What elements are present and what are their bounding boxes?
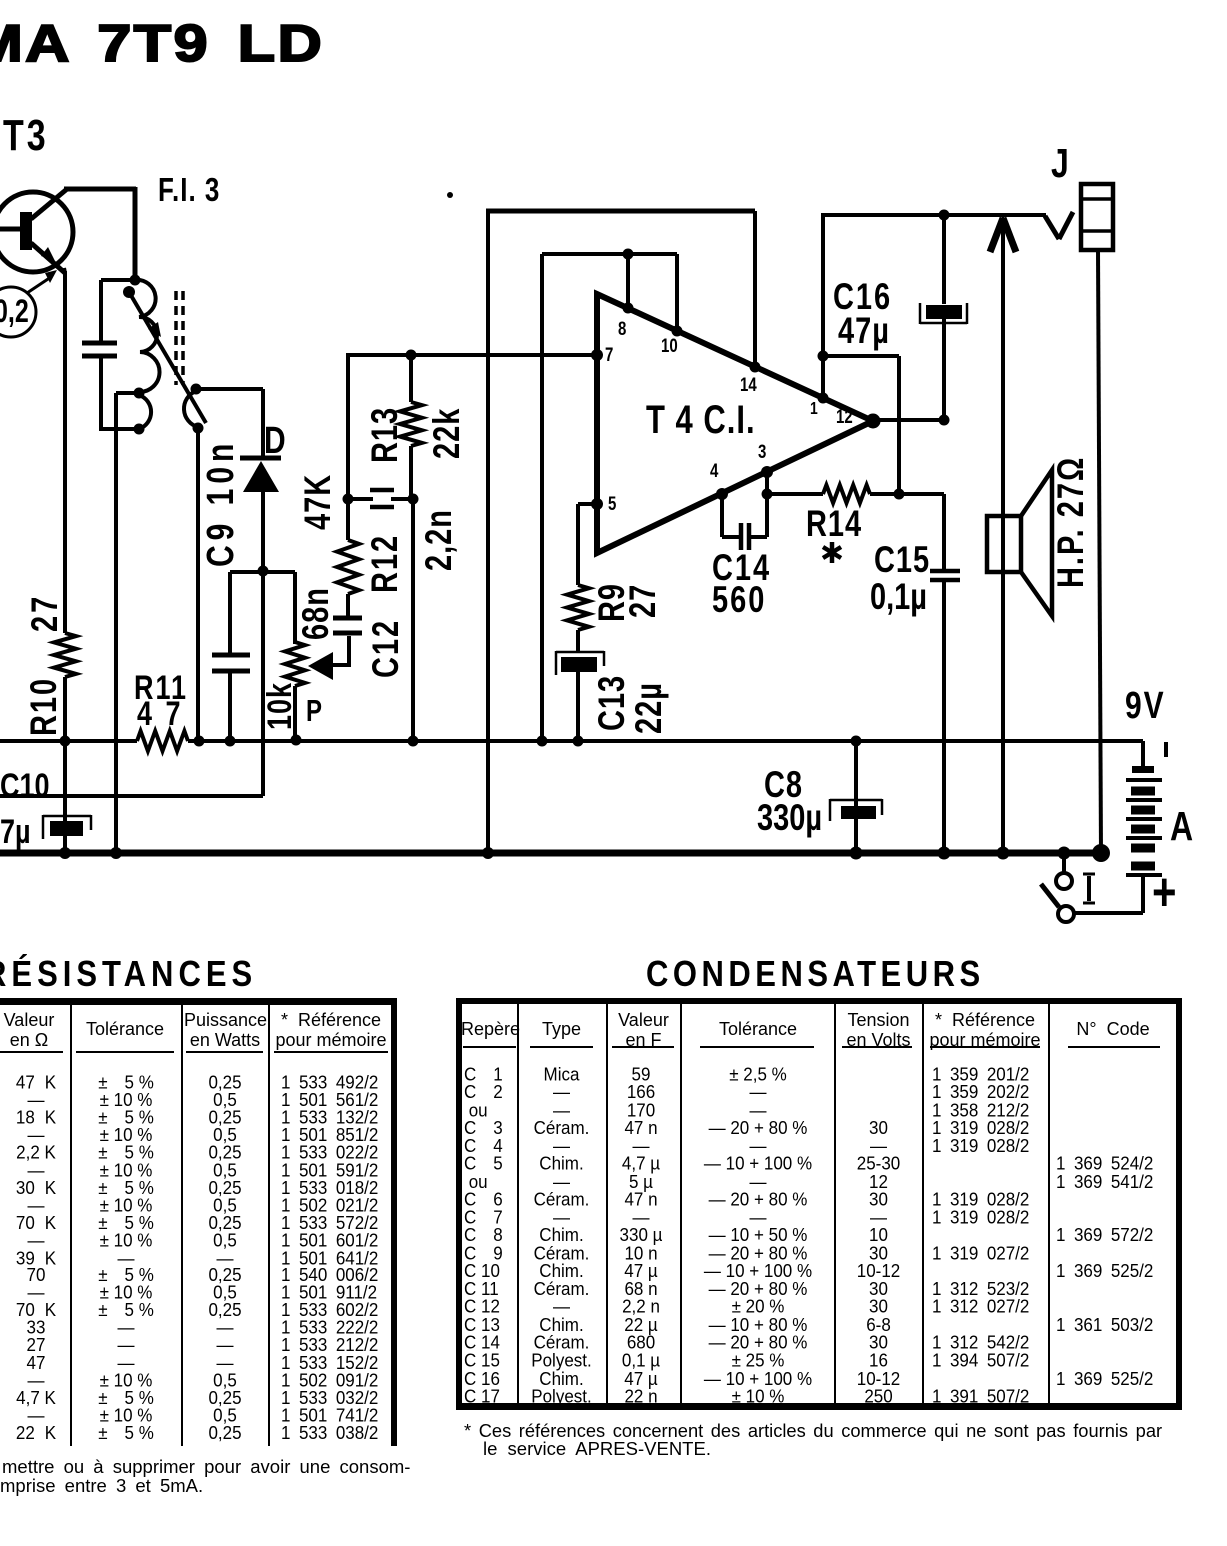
svg-text:10k: 10k bbox=[260, 682, 299, 730]
svg-text:22µ: 22µ bbox=[629, 682, 670, 734]
svg-text:12: 12 bbox=[836, 405, 853, 427]
resistor R9 27 bbox=[567, 585, 589, 630]
svg-text:MA 7T9 LD: MA 7T9 LD bbox=[0, 15, 324, 73]
thin supply rail bbox=[0, 739, 137, 743]
secondary tap bbox=[116, 391, 139, 395]
right coupling coil bbox=[191, 384, 202, 395]
svg-text:560: 560 bbox=[712, 580, 766, 621]
wire coil down bbox=[196, 428, 200, 743]
wire pin12 out bbox=[939, 415, 950, 426]
svg-text:4: 4 bbox=[710, 459, 719, 481]
capacitor C11 68n bbox=[212, 653, 250, 658]
pin 5 bbox=[591, 498, 603, 510]
core adjust slash bbox=[129, 292, 206, 423]
secondary coil bbox=[139, 395, 151, 429]
op-amp T4 C.I. bbox=[597, 294, 873, 553]
svg-text:27: 27 bbox=[25, 594, 66, 632]
node det bbox=[258, 566, 269, 577]
svg-text:1: 1 bbox=[810, 398, 818, 418]
tuning capacitor bbox=[82, 341, 117, 346]
svg-text:14: 14 bbox=[740, 373, 757, 395]
resistor R12 47K bbox=[337, 540, 359, 594]
svg-text:3: 3 bbox=[758, 440, 766, 462]
svg-text:68n: 68n bbox=[296, 587, 337, 640]
svg-text:27: 27 bbox=[623, 584, 664, 618]
svg-text:5: 5 bbox=[608, 492, 617, 514]
svg-text:H.P. 27Ω: H.P. 27Ω bbox=[1051, 456, 1092, 588]
pin 7 bbox=[591, 349, 603, 361]
wire pin7 bbox=[346, 353, 597, 357]
top wire to pin14 bbox=[486, 209, 755, 214]
capacitor C15 0,1µ bbox=[942, 494, 946, 570]
capacitor C12 68n bbox=[333, 616, 362, 621]
svg-text:C9 10n: C9 10n bbox=[200, 439, 242, 567]
svg-text:22k: 22k bbox=[427, 408, 468, 459]
svg-text:J: J bbox=[1051, 140, 1069, 186]
wire collector top bbox=[64, 187, 136, 192]
wire pin3 junction bbox=[765, 472, 769, 494]
svg-text:T3: T3 bbox=[3, 112, 49, 160]
svg-text:R12: R12 bbox=[365, 534, 406, 593]
svg-text:9V: 9V bbox=[1125, 685, 1166, 727]
capacitor 2,2n bbox=[348, 497, 373, 501]
svg-text:330µ: 330µ bbox=[757, 798, 822, 839]
plug arrow bbox=[1001, 222, 1005, 852]
primary coil bbox=[135, 280, 160, 392]
svg-text:A: A bbox=[1170, 803, 1193, 849]
pin 1 bbox=[818, 393, 829, 404]
thick ground rail bbox=[0, 850, 1106, 857]
AGC line down-left bbox=[261, 571, 265, 796]
svg-text:F.I. 3: F.I. 3 bbox=[158, 172, 220, 209]
svg-text:4 7: 4 7 bbox=[137, 694, 184, 733]
pin 3 bbox=[761, 466, 773, 478]
capacitor C16 47µ bbox=[939, 210, 950, 221]
pin 8 bbox=[623, 303, 634, 314]
resistor R14 bbox=[767, 492, 823, 496]
pin 10 bbox=[672, 326, 683, 337]
pin 14 bbox=[750, 362, 761, 373]
svg-text:0,1µ: 0,1µ bbox=[870, 577, 927, 618]
table RESISTANCES bbox=[0, 953, 257, 995]
wire to diode bbox=[196, 387, 263, 391]
svg-text:C10: C10 bbox=[0, 766, 50, 805]
jack switch notch bbox=[1045, 216, 1059, 239]
svg-text:R14: R14 bbox=[806, 504, 862, 545]
pin 12 bbox=[866, 414, 881, 429]
svg-text:T 4 C.I.: T 4 C.I. bbox=[646, 397, 756, 442]
svg-text:47K: 47K bbox=[298, 474, 339, 530]
wire emitter down bbox=[64, 268, 65, 273]
feedback wire 8/10 bbox=[542, 252, 677, 256]
svg-text:C13: C13 bbox=[592, 675, 633, 731]
svg-text:0,2: 0,2 bbox=[0, 294, 29, 330]
svg-text:8: 8 bbox=[618, 317, 627, 339]
svg-text:2,2n: 2,2n bbox=[419, 509, 460, 571]
node A bbox=[343, 494, 354, 505]
capacitor C14 560 bbox=[720, 494, 724, 537]
wire pin1 to top bbox=[821, 216, 825, 398]
jack sleeve wire bbox=[1098, 250, 1101, 854]
svg-text:7: 7 bbox=[605, 343, 613, 365]
svg-text:R13: R13 bbox=[365, 407, 406, 463]
wire to C11 bbox=[230, 570, 263, 574]
wire pin5 R9 C13 bbox=[578, 502, 597, 506]
svg-text:R10: R10 bbox=[24, 677, 65, 736]
svg-text:P: P bbox=[306, 693, 322, 728]
speaker H.P. 27Ω bbox=[987, 516, 1021, 572]
svg-text:47µ: 47µ bbox=[838, 311, 890, 352]
svg-text:10: 10 bbox=[661, 334, 678, 356]
svg-text:+: + bbox=[1152, 862, 1177, 922]
node 0,2 bbox=[0, 287, 36, 337]
capacitor C13 22µ bbox=[555, 651, 558, 675]
wire node to rail bbox=[411, 499, 415, 743]
svg-text:7µ: 7µ bbox=[0, 812, 31, 851]
table CONDENSATEURS bbox=[646, 953, 985, 995]
core dashed lines bbox=[174, 291, 178, 385]
switch I bbox=[1062, 853, 1066, 872]
supply vertical bbox=[486, 209, 490, 856]
svg-text:C15: C15 bbox=[874, 540, 930, 581]
resistor R13 22k bbox=[406, 350, 417, 361]
potentiometer P 10k bbox=[263, 570, 295, 574]
capacitor C8 330µ bbox=[851, 736, 862, 747]
svg-text:C12: C12 bbox=[366, 619, 407, 678]
pin 4 bbox=[716, 488, 728, 500]
